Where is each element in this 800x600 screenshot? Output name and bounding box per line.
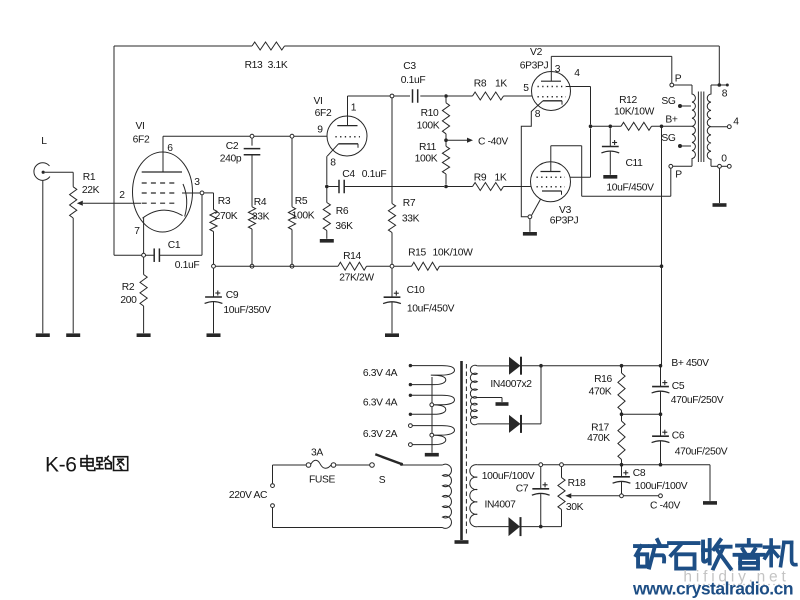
- output transformer secondary winding: [707, 85, 711, 166]
- label title K-6: [45, 454, 77, 477]
- heater winding 6.3V 4A second: [409, 394, 455, 416]
- node C8 bottom: [620, 494, 624, 498]
- junction R16 top: [620, 364, 624, 368]
- svg-text:6P3PJ: 6P3PJ: [550, 216, 579, 227]
- capacitor C1: [154, 248, 159, 262]
- label R9 1K: [474, 173, 507, 184]
- wire R1 wiper to V1 grid pin 2: [77, 201, 141, 206]
- svg-text:R12: R12: [619, 95, 637, 106]
- svg-text:470K: 470K: [587, 433, 610, 444]
- heater winding 6.3V 2A: [409, 424, 455, 447]
- wire tap 0 to ground: [719, 168, 721, 203]
- terminal tap 0: [721, 154, 731, 169]
- capacitor C8 electrolytic: [613, 470, 631, 483]
- input jack L: [34, 163, 50, 181]
- wire cathodes to ground: [529, 219, 531, 232]
- V1 screen arc: [183, 184, 187, 217]
- wire HV top to D1: [477, 365, 509, 367]
- svg-text:5: 5: [523, 83, 529, 94]
- resistor R12: [621, 122, 652, 130]
- label R15 10K/10W: [408, 248, 473, 259]
- capacitor C3: [413, 89, 418, 103]
- wire C7 top: [540, 467, 542, 489]
- node R7 top: [390, 94, 394, 98]
- svg-text:6F2: 6F2: [315, 108, 332, 119]
- svg-text:6.3V 4A: 6.3V 4A: [363, 398, 398, 409]
- node C -40V: [659, 494, 663, 498]
- wire fuse to switch: [336, 464, 370, 466]
- wire heater common: [431, 377, 433, 453]
- ground C9: [207, 333, 221, 337]
- label pin 7: [134, 226, 140, 237]
- svg-text:200: 200: [120, 295, 137, 306]
- wire C4 to R9 node: [344, 186, 444, 188]
- resistor R9: [473, 183, 504, 191]
- svg-text:2: 2: [119, 190, 125, 201]
- wire P top to winding: [674, 84, 692, 86]
- label C4 0.1uF: [342, 169, 386, 180]
- terminal P top: [670, 74, 682, 87]
- svg-text:3: 3: [194, 177, 200, 188]
- svg-text:10K/10W: 10K/10W: [614, 107, 655, 118]
- node R5 tap: [290, 134, 294, 138]
- label C9 10uF/350V: [223, 290, 271, 316]
- svg-text:100uF/100V: 100uF/100V: [635, 481, 688, 492]
- wire V1b pin 1: [347, 96, 349, 126]
- label FUSE: [309, 475, 336, 486]
- node heater common 1: [430, 403, 434, 407]
- svg-text:470uF/250V: 470uF/250V: [675, 447, 728, 458]
- node R18 top: [560, 463, 564, 467]
- bias secondary winding: [470, 465, 477, 527]
- wire R6 to ground: [326, 231, 328, 239]
- V1b grid dotted: [335, 136, 360, 138]
- svg-text:C8: C8: [633, 468, 646, 479]
- wire R3 bottom: [213, 232, 215, 265]
- wire C2 to R4: [251, 155, 253, 207]
- V2 anode plate: [541, 80, 561, 82]
- svg-text:6.3V 2A: 6.3V 2A: [363, 429, 398, 440]
- terminal AC top: [271, 484, 275, 488]
- junction V2 V3 screens: [589, 125, 593, 129]
- wire jack ground: [42, 181, 44, 334]
- svg-text:6.3V 4A: 6.3V 4A: [363, 368, 398, 379]
- label R13 3.1K: [245, 60, 288, 71]
- label R3 270K: [215, 196, 238, 222]
- watermark url www.crystalradio.cn: [632, 579, 793, 599]
- svg-text:C5: C5: [672, 381, 685, 392]
- wire node to R8: [446, 95, 473, 97]
- V3 screen dotted: [537, 176, 566, 178]
- capacitor C9 electrolytic: [205, 291, 223, 304]
- node cathode junction: [142, 253, 146, 257]
- wire C1 left: [114, 254, 154, 256]
- tube V1 pentode envelope: [133, 152, 193, 232]
- label pin 2: [119, 190, 125, 201]
- label C -40V output: [650, 501, 680, 512]
- wire rail: [216, 265, 662, 267]
- svg-text:100K: 100K: [417, 121, 440, 132]
- label V2 pin 4: [574, 68, 580, 79]
- svg-text:220V AC: 220V AC: [229, 490, 268, 501]
- svg-text:R6: R6: [336, 206, 349, 217]
- capacitor C6 electrolytic: [652, 430, 670, 443]
- V2 screen dotted: [538, 86, 567, 88]
- wire pin3 node to R3: [204, 193, 213, 210]
- svg-text:33K: 33K: [402, 214, 420, 225]
- resistor R1 potentiometer: [70, 187, 77, 218]
- label pin 3: [194, 177, 200, 188]
- resistor R15: [412, 262, 440, 270]
- ground heater common: [425, 453, 439, 457]
- label R7 33K: [402, 198, 420, 225]
- svg-text:R17: R17: [591, 423, 609, 434]
- label 3A: [311, 448, 323, 459]
- svg-text:4: 4: [733, 117, 739, 128]
- svg-text:C1: C1: [168, 240, 181, 251]
- svg-text:100K: 100K: [292, 211, 315, 222]
- wire C7 bottom: [540, 494, 542, 527]
- wire pin3 node down to C1: [159, 195, 202, 255]
- power transformer 220V primary winding: [443, 464, 452, 528]
- resistor R6: [323, 203, 330, 231]
- node C2 tap: [250, 134, 254, 138]
- svg-text:8: 8: [330, 158, 336, 169]
- svg-text:B+: B+: [665, 115, 678, 126]
- label V2 pin 8: [535, 109, 541, 120]
- fuse 3A: [306, 460, 336, 468]
- resistor R10: [442, 103, 449, 134]
- wire secondary tap 8: [711, 84, 719, 86]
- watermark logo text: [635, 540, 796, 569]
- wire rail to C9: [213, 268, 215, 297]
- wire node to R5: [291, 138, 293, 207]
- label V3 6P3PJ: [550, 205, 579, 227]
- wire V2 pin 3 anode: [550, 56, 552, 81]
- node C7 top: [539, 463, 543, 467]
- capacitor C7 electrolytic: [532, 482, 550, 495]
- junction R16 R17: [620, 412, 624, 416]
- wire cathode node to R2: [143, 257, 145, 274]
- svg-text:R8: R8: [474, 79, 487, 90]
- wire V3 pin 3 anode: [551, 146, 671, 197]
- junction C8 top: [620, 463, 624, 467]
- svg-text:8: 8: [535, 109, 541, 120]
- junction C-40V tap: [444, 134, 448, 142]
- wire R17 C6 bottoms: [622, 441, 661, 465]
- power transformer core: [460, 361, 466, 540]
- wire secondary tap 0: [711, 165, 727, 167]
- svg-text:3A: 3A: [311, 448, 323, 459]
- wire R12 to transformer B+: [652, 125, 693, 127]
- V3 anode plate: [541, 171, 561, 173]
- wire R18 bottom: [561, 510, 563, 527]
- HV secondary winding: [470, 365, 477, 425]
- resistor R4: [248, 207, 255, 229]
- ground C10: [385, 333, 399, 337]
- wire junction to R6: [326, 187, 328, 203]
- junction B+ 450V: [659, 364, 663, 368]
- ground jack: [36, 333, 50, 337]
- label IN4007x2: [490, 379, 532, 390]
- label 6.3V 4A second: [363, 398, 398, 409]
- label C6 470uF/250V: [672, 431, 728, 458]
- wire P bottom to winding: [673, 165, 692, 167]
- wire to fuse: [273, 464, 307, 466]
- junction rail B+ vertical: [660, 264, 664, 268]
- wire middle junction: [622, 391, 661, 414]
- wire V1b plate node run: [348, 95, 444, 97]
- svg-text:7: 7: [134, 226, 140, 237]
- svg-text:240p: 240p: [220, 154, 242, 165]
- svg-text:R10: R10: [421, 108, 439, 119]
- wire V1 plate to V1b grid: [163, 135, 327, 137]
- svg-text:VI: VI: [135, 121, 144, 132]
- wire R7 top: [391, 98, 393, 203]
- junction D2 join: [539, 364, 543, 368]
- capacitor C2 240p: [244, 149, 261, 155]
- label R14 27K/2W: [339, 251, 374, 284]
- resistor R13: [252, 42, 285, 50]
- label pin 8: [330, 158, 336, 169]
- wire D2 up: [521, 366, 541, 424]
- label S: [379, 475, 386, 486]
- svg-text:R4: R4: [254, 197, 267, 208]
- svg-text:0.1uF: 0.1uF: [362, 169, 387, 180]
- wire C-40V stub: [446, 138, 473, 143]
- terminal SG upper: [661, 96, 691, 108]
- wire C8 bottom: [621, 482, 623, 494]
- wire to R10: [445, 96, 447, 103]
- svg-text:470uF/250V: 470uF/250V: [671, 395, 724, 406]
- svg-text:C3: C3: [403, 61, 416, 72]
- V3 grid dotted: [537, 186, 566, 188]
- svg-text:0: 0: [721, 154, 727, 165]
- wire C6 top: [660, 414, 662, 436]
- label V1 6F2: [133, 121, 150, 146]
- junction C4 R6: [325, 185, 329, 189]
- svg-text:10uF/450V: 10uF/450V: [606, 183, 654, 194]
- V1 grid dashed rows: [142, 183, 178, 203]
- svg-text:30K: 30K: [566, 502, 584, 513]
- label C11 10uF/450V: [606, 158, 654, 194]
- svg-text:C -40V: C -40V: [650, 501, 680, 512]
- svg-text:P: P: [675, 170, 682, 181]
- resistor R11: [442, 140, 449, 174]
- wire secondary tap 4: [711, 126, 727, 128]
- svg-text:V2: V2: [530, 47, 543, 58]
- svg-text:P: P: [675, 74, 682, 85]
- capacitor C4: [339, 180, 344, 194]
- label V2 pin 5: [523, 83, 529, 94]
- wire bias top rail: [477, 464, 710, 466]
- ground R6: [320, 239, 334, 243]
- wire C11 to ground: [609, 151, 611, 175]
- svg-text:3: 3: [555, 64, 561, 75]
- svg-text:8: 8: [722, 89, 728, 100]
- svg-text:9: 9: [317, 125, 323, 136]
- junction C7 bottom: [539, 525, 543, 529]
- wire V3 pin 4 screen: [570, 128, 591, 177]
- svg-text:C6: C6: [672, 431, 685, 442]
- svg-text:R13: R13: [245, 60, 263, 71]
- svg-text:27K/2W: 27K/2W: [339, 273, 374, 284]
- svg-text:R5: R5: [295, 196, 308, 207]
- resistor R8: [473, 92, 504, 100]
- ground right: [703, 501, 717, 505]
- V1b anode plate: [337, 125, 357, 127]
- label 6.3V 2A: [363, 429, 398, 440]
- V2 cathode: [543, 101, 562, 105]
- wire V2 pin 4 screen: [566, 87, 591, 125]
- svg-text:R9: R9: [474, 173, 487, 184]
- wire R9 to V3 grid: [504, 186, 531, 188]
- svg-text:IN4007: IN4007: [484, 500, 516, 511]
- svg-text:www.crystalradio.cn: www.crystalradio.cn: [632, 579, 793, 599]
- output transformer primary winding: [692, 85, 695, 166]
- svg-text:33K: 33K: [252, 212, 270, 223]
- wire R5 to rail: [291, 230, 293, 265]
- svg-text:0.1uF: 0.1uF: [175, 260, 200, 271]
- wire R1 bottom to ground: [72, 218, 74, 333]
- node R7 rail: [390, 264, 394, 268]
- label C1 0.1uF: [168, 240, 200, 271]
- svg-text:6F2: 6F2: [133, 135, 150, 146]
- ground R1: [66, 333, 80, 337]
- svg-text:270K: 270K: [215, 211, 238, 222]
- svg-text:C2: C2: [226, 141, 239, 152]
- wire to R16: [621, 366, 623, 373]
- label C7 100uF/100V: [482, 471, 535, 495]
- wire V1 pin 6 anode: [162, 136, 164, 172]
- wire node to C2: [251, 138, 253, 145]
- terminal tap 4: [727, 117, 739, 129]
- svg-text:IN4007x2: IN4007x2: [490, 379, 532, 390]
- label C8 100uF/100V: [633, 468, 688, 492]
- label pin 9: [317, 125, 323, 136]
- svg-text:6: 6: [167, 143, 173, 154]
- resistor R2: [140, 275, 147, 307]
- junction C5 C6: [659, 412, 663, 416]
- label C5 470uF/250V: [671, 381, 724, 406]
- label R11 100K: [415, 142, 438, 165]
- wire C -40V: [624, 495, 659, 497]
- ground cathodes: [523, 232, 537, 236]
- label pin 6: [167, 143, 173, 154]
- svg-text:6P3PJ: 6P3PJ: [520, 61, 549, 72]
- wire bias bottom: [477, 526, 508, 528]
- label R6 36K: [335, 206, 353, 232]
- wire V1 pin 7 cathode: [143, 218, 145, 253]
- capacitor C5 electrolytic: [652, 380, 670, 393]
- label 220V AC: [229, 490, 268, 501]
- svg-text:C4: C4: [342, 169, 355, 180]
- resistor R7: [388, 204, 395, 233]
- svg-text:100K: 100K: [415, 154, 438, 165]
- svg-text:C7: C7: [516, 484, 529, 495]
- junction C11 tap: [609, 125, 613, 129]
- label R18 30K: [566, 478, 586, 513]
- V3 cathode: [542, 191, 562, 195]
- wire switch to primary: [402, 464, 443, 466]
- diode D2 IN4007: [509, 415, 521, 433]
- label C3 0.1uF: [401, 61, 426, 86]
- V1b cathode: [327, 144, 358, 156]
- node tap 0 ground: [718, 164, 722, 168]
- svg-text:3.1K: 3.1K: [268, 60, 288, 71]
- svg-text:C11: C11: [625, 158, 643, 169]
- ground R2: [137, 333, 151, 337]
- label tap 8: [722, 89, 728, 100]
- svg-text:1K: 1K: [495, 79, 507, 90]
- wire right ground: [709, 465, 711, 501]
- label B+ 450V: [671, 358, 709, 369]
- watermark hifidiy.net: [683, 569, 789, 586]
- wire HV bottom to D2: [477, 423, 509, 425]
- svg-text:10uF/450V: 10uF/450V: [407, 304, 455, 315]
- svg-text:L: L: [41, 136, 47, 147]
- wire node to R9: [446, 186, 473, 188]
- wire D1 to B+: [521, 365, 660, 367]
- label 6.3V 4A first: [363, 368, 398, 379]
- wire C10 to ground: [391, 302, 393, 333]
- wire to C4: [329, 186, 339, 188]
- wire B+ vertical: [661, 126, 663, 365]
- wire R18 wiper: [565, 493, 619, 498]
- wire R8 to V2 grid pin 5: [504, 95, 533, 97]
- label R2 200: [120, 282, 137, 306]
- svg-text:1: 1: [351, 103, 357, 114]
- wire feedback top from node above C1 to output transformer tap 8: [114, 46, 719, 255]
- diode D1 IN4007: [509, 357, 521, 375]
- resistor R5: [288, 207, 295, 230]
- svg-text:R2: R2: [122, 282, 135, 293]
- svg-text:SG: SG: [661, 96, 676, 107]
- svg-text:SG: SG: [661, 133, 676, 144]
- svg-text:100uF/100V: 100uF/100V: [482, 471, 535, 482]
- label V2 pin 3: [555, 64, 561, 75]
- switch S contact: [370, 463, 375, 468]
- svg-text:C9: C9: [226, 290, 239, 301]
- wire R7 bottom: [391, 233, 393, 265]
- node heater common 2: [430, 433, 434, 437]
- label R8 1K: [474, 79, 508, 90]
- svg-text:R11: R11: [419, 142, 437, 153]
- node R5 rail: [290, 264, 294, 268]
- label R1 22K: [82, 172, 100, 196]
- junction B+ node: [660, 125, 664, 129]
- label V1b 6F2: [313, 96, 331, 119]
- wire R2 to ground: [143, 306, 145, 333]
- HV center tap: [477, 398, 508, 406]
- wire V3 cathode to junction: [532, 199, 541, 215]
- tube V1b triode envelope: [327, 116, 367, 156]
- svg-text:4: 4: [574, 68, 580, 79]
- svg-text:R7: R7: [403, 198, 416, 209]
- V2 grid dotted: [538, 96, 567, 98]
- wire V1 pin 3 to node: [182, 192, 200, 194]
- tube V3 envelope: [531, 162, 571, 202]
- wire V2 anode to primary P top: [551, 56, 672, 82]
- ground C11: [603, 175, 617, 179]
- wire R11 bottom: [445, 174, 447, 184]
- svg-text:C -40V: C -40V: [478, 136, 508, 147]
- junction C6 bottom: [659, 463, 663, 467]
- svg-text:470K: 470K: [589, 387, 612, 398]
- label R10 100K: [417, 108, 440, 132]
- svg-text:10uF/350V: 10uF/350V: [223, 305, 271, 316]
- wire R18 top: [561, 467, 563, 478]
